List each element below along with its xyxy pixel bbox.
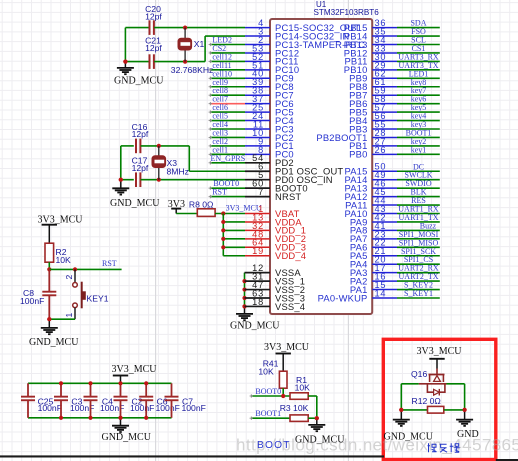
svg-text:RST: RST [102, 259, 117, 268]
capacitor C20 [145, 4, 162, 35]
transistor Q16 [411, 369, 447, 396]
pin 35 PB14 [344, 26, 397, 41]
pin 14 PA0-WKUP [318, 288, 397, 303]
junction [315, 416, 319, 420]
pin 51 PC10 [245, 60, 299, 75]
no-connect cross [209, 68, 212, 71]
svg-text:100nF: 100nF [182, 403, 206, 413]
pin 21 PA5 [350, 246, 397, 261]
pin 56 PB4 [349, 111, 397, 126]
svg-text:14: 14 [375, 288, 387, 298]
pin 63 VSS_3 [245, 288, 306, 303]
net label cell7 [210, 95, 245, 104]
svg-text:10K: 10K [258, 367, 274, 377]
net label S_KEY2 [397, 281, 440, 290]
pin 55 PB3 [349, 119, 397, 134]
net label key2 [397, 137, 440, 146]
svg-text:12pf: 12pf [145, 43, 162, 53]
svg-text:PA0-WKUP: PA0-WKUP [318, 292, 368, 303]
no-connect cross [209, 186, 212, 189]
pin 26 PB0 [349, 145, 397, 160]
svg-text:GND_MCU: GND_MCU [114, 76, 164, 87]
wire [49, 318, 75, 320]
junction [281, 394, 285, 398]
power 3V3_MCU [111, 364, 157, 383]
pin 8 PC0 [245, 145, 294, 160]
net label key8 [397, 78, 440, 87]
svg-text:3V3_MCU: 3V3_MCU [264, 342, 310, 353]
highlight box 防反接 [383, 339, 496, 459]
power 3V3 [168, 199, 185, 214]
junction [119, 178, 123, 182]
junction [118, 416, 122, 420]
wire [308, 417, 317, 419]
net label cell10 [210, 69, 245, 78]
capacitor C25 [21, 383, 62, 418]
wire [223, 246, 245, 248]
pin 9 PC1 [245, 136, 294, 151]
wire [125, 27, 149, 29]
junction [123, 60, 127, 64]
pin 6 PD1 OSC_OUT [245, 162, 343, 177]
ground GND_MCU [29, 317, 79, 348]
wire [141, 145, 190, 147]
net label SCL [397, 36, 440, 45]
pin 59 PB7 [349, 86, 397, 101]
net label UART1_RX [397, 205, 440, 214]
wire [154, 27, 245, 29]
net label FSO [397, 27, 440, 36]
svg-text:3V3_MCU: 3V3_MCU [111, 364, 157, 375]
pin 4 PC15-SOC32_OUT [245, 18, 360, 33]
svg-text:GND_MCU: GND_MCU [230, 321, 280, 332]
wire [48, 262, 50, 269]
junction [47, 267, 51, 271]
pin 60 BOOT0 [245, 179, 308, 194]
junction [399, 408, 403, 412]
junction [242, 296, 246, 300]
svg-text:S_KEY1: S_KEY1 [404, 289, 433, 298]
wire [121, 145, 134, 147]
wire [401, 409, 427, 411]
net label SPI1_MOSI [397, 230, 440, 239]
net label cell5 [210, 112, 245, 121]
junction [144, 416, 148, 420]
svg-text:BOOT0: BOOT0 [255, 387, 281, 396]
junction [59, 381, 63, 385]
net label key5 [397, 103, 440, 112]
svg-text:GND_MCU: GND_MCU [29, 337, 79, 348]
svg-text:12pf: 12pf [132, 163, 149, 173]
power 3V3_MCU [416, 346, 462, 369]
svg-text:100nF: 100nF [130, 403, 154, 413]
no-connect cross [209, 110, 212, 113]
ground GND_MCU [101, 416, 151, 443]
wire [205, 35, 245, 37]
wire [464, 384, 466, 410]
pin 13 VDDA [245, 212, 302, 227]
pin 15 PA1 [350, 280, 397, 295]
pin 2 PC13-TAMPER-RTC [245, 35, 365, 50]
net label UART2_TX [397, 272, 440, 281]
power 3V3_MCU [264, 342, 310, 371]
junction [221, 237, 225, 241]
pin 40 PC9 [245, 69, 294, 84]
ground GND_MCU [114, 60, 164, 87]
no-connect cross [209, 94, 212, 97]
junction [183, 26, 187, 30]
svg-text:100nF: 100nF [156, 403, 180, 413]
net label cell3 [210, 128, 245, 137]
svg-text:8MHz: 8MHz [167, 167, 189, 177]
net label BLK [397, 188, 440, 197]
crystal X1 [171, 28, 214, 76]
pin 62 PB9 [349, 69, 397, 84]
no-connect cross [250, 394, 253, 397]
no-connect cross [209, 161, 212, 164]
svg-text:BOOT1: BOOT1 [255, 409, 281, 418]
capacitor C4 [84, 383, 125, 418]
pin 47 VSS_2 [245, 280, 306, 295]
pin 44 PA11 [345, 195, 397, 210]
svg-text:GND_MCU: GND_MCU [101, 432, 151, 443]
pin 46 PA13 [344, 179, 397, 194]
net label cell9 [210, 78, 245, 87]
svg-text:10K: 10K [295, 383, 311, 393]
svg-text:3V3_MCU: 3V3_MCU [416, 346, 462, 357]
net label SDA [397, 19, 440, 28]
IC U1 STM32F103RBT6 [270, 0, 379, 314]
pin 5 PD0 OSC_IN [245, 170, 333, 185]
pin 53 PC12 [245, 43, 299, 58]
net label LED2 [210, 36, 245, 45]
junction [118, 381, 122, 385]
wire [189, 170, 245, 172]
net label Buzz [397, 221, 440, 230]
junction [157, 144, 161, 148]
net label S_KEY1 [397, 289, 440, 298]
pin 57 PB5 [349, 103, 397, 118]
pin 58 PB6 [349, 94, 397, 109]
wire [176, 213, 197, 215]
pin 12 VSSA [245, 263, 302, 278]
svg-text:32.768KHz: 32.768KHz [171, 65, 214, 75]
wire [282, 388, 284, 396]
pin 30 PB11 [344, 52, 397, 67]
ground GND_MCU [230, 304, 280, 331]
pin 36 PB15 [344, 18, 397, 33]
net label key1 [397, 145, 440, 154]
junction [88, 381, 92, 385]
capacitor C16 [132, 122, 149, 153]
label 防反接 [428, 443, 460, 452]
wire [223, 255, 245, 257]
resistor R12 [412, 396, 444, 413]
net label key3 [397, 120, 440, 129]
net label SPI1_CS [397, 255, 440, 264]
pin 43 PA10 [344, 204, 397, 219]
wire [400, 384, 402, 410]
svg-text:Q16: Q16 [411, 369, 427, 379]
junction [221, 228, 225, 232]
power 3V3_MCU [37, 214, 83, 243]
junction [73, 267, 77, 271]
pin 3 PC14-SOC32_IN [245, 26, 350, 41]
junction [242, 279, 246, 283]
svg-text:R8 0Ω: R8 0Ω [189, 200, 214, 210]
net label EN_GPRS [210, 154, 245, 163]
pin 18 VSS_4 [245, 297, 306, 312]
net label DC [397, 162, 440, 171]
svg-text:12pf: 12pf [145, 12, 162, 22]
wire [28, 382, 172, 384]
no-connect cross [209, 136, 212, 139]
wire [223, 238, 245, 240]
net label SWDIO [397, 179, 440, 188]
wire [121, 179, 134, 181]
pin 42 PA9 [350, 212, 397, 227]
svg-text:12pf: 12pf [132, 129, 149, 139]
no-connect cross [209, 102, 212, 105]
svg-text:1: 1 [64, 313, 74, 318]
ground GND_MCU [308, 416, 325, 431]
pin 50 PA15 [344, 162, 397, 177]
net label UART1_TX [397, 213, 440, 222]
junction [157, 178, 161, 182]
wire [154, 61, 205, 63]
wire [444, 409, 465, 411]
svg-text:10K: 10K [56, 255, 72, 265]
no-connect cross [209, 85, 212, 88]
net label cell12 [210, 52, 245, 61]
net label RES [397, 196, 440, 205]
pin 64 VDD_3 [245, 238, 306, 253]
junction [88, 416, 92, 420]
ground GND_MCU [393, 408, 410, 426]
pin 45 PA12 [344, 187, 397, 202]
svg-text:BOOT: BOOT [257, 440, 291, 451]
wire [120, 146, 122, 180]
no-connect cross [209, 43, 212, 46]
resistor R41 [258, 359, 287, 389]
pin 16 PA2 [350, 272, 397, 287]
svg-text:GND_MCU: GND_MCU [295, 435, 345, 446]
capacitor C2 [114, 383, 155, 418]
svg-text:3V3_MCU: 3V3_MCU [37, 214, 83, 225]
junction [221, 211, 225, 215]
pin 28 PB2BOOT1 [316, 128, 397, 143]
net label UART3_RX [397, 52, 440, 61]
pin 1 VBAT [245, 204, 300, 219]
svg-text:X1: X1 [194, 39, 205, 49]
svg-text:RST: RST [212, 188, 227, 197]
svg-text:26: 26 [375, 145, 387, 155]
net label SWCLK [397, 171, 440, 180]
junction [144, 381, 148, 385]
resistor R2 [45, 243, 71, 265]
pin 11 PC3 [245, 119, 294, 134]
net label cell2 [210, 137, 245, 146]
net label cell4 [210, 120, 245, 129]
svg-text:NRST: NRST [275, 191, 301, 202]
no-connect cross [209, 153, 212, 156]
wire [316, 396, 318, 418]
pin 33 PB12 [344, 43, 397, 58]
wire [223, 229, 245, 231]
net label cell6 [210, 103, 245, 112]
resistor R3 [280, 403, 309, 421]
net label cell1 [210, 145, 245, 154]
net label BOOT1 [251, 409, 290, 418]
svg-text:VDD_4: VDD_4 [275, 250, 306, 261]
sheet bottom border [0, 455, 518, 461]
wire [222, 214, 224, 256]
net label SPI1_SCK [397, 247, 440, 256]
svg-text:EN_GPRS: EN_GPRS [211, 154, 246, 163]
svg-text:PB0: PB0 [349, 149, 367, 160]
junction [242, 304, 246, 308]
net label key7 [397, 86, 440, 95]
no-connect cross [209, 119, 212, 122]
pin 27 PB1 [349, 136, 397, 151]
net label RST [210, 188, 245, 197]
svg-text:18: 18 [252, 297, 264, 307]
pin 20 PA4 [350, 255, 397, 270]
svg-text:R3 10K: R3 10K [280, 403, 309, 413]
junction [221, 220, 225, 224]
svg-text:VSS_4: VSS_4 [275, 301, 305, 312]
pin 25 PC5 [245, 103, 294, 118]
pin 19 VDD_4 [245, 246, 306, 261]
pin 31 VSS_1 [245, 272, 306, 287]
svg-text:GND_MCU: GND_MCU [110, 198, 160, 209]
svg-text:STM32F103RBT6: STM32F103RBT6 [314, 8, 380, 17]
ground GND [456, 408, 473, 426]
no-connect cross [209, 77, 212, 80]
net label key6 [397, 95, 440, 104]
wire [401, 383, 418, 385]
wire [308, 395, 317, 397]
capacitor C3 [54, 383, 94, 418]
pin 29 PB10 [344, 60, 397, 75]
resistor R8 [189, 200, 215, 217]
junction [463, 408, 467, 412]
svg-text:GND: GND [457, 429, 479, 440]
net label key4 [397, 112, 440, 121]
net label BOOT0 [251, 387, 290, 396]
net label CS1 [397, 44, 440, 53]
svg-text:100nF: 100nF [38, 403, 62, 413]
svg-text:R12 0Ω: R12 0Ω [412, 396, 442, 406]
pin 48 VDD_2 [245, 229, 306, 244]
pin 39 PC8 [245, 77, 294, 92]
pin 24 PC4 [245, 111, 294, 126]
net label RST [49, 259, 121, 269]
pin 17 PA3 [350, 263, 397, 278]
wire [28, 417, 172, 419]
wire [141, 179, 245, 181]
switch KEY1 [64, 269, 109, 319]
pin 10 PC2 [245, 128, 294, 143]
wire [188, 146, 190, 171]
svg-text:GND_MCU: GND_MCU [384, 432, 434, 443]
no-connect cross [209, 195, 212, 198]
pin 54 PD2 [245, 153, 294, 168]
crystal X3 [153, 146, 189, 180]
svg-text:2: 2 [64, 275, 74, 280]
svg-text:7: 7 [258, 187, 264, 197]
pin 23 PA7 [350, 229, 397, 244]
pin 34 PB13 [344, 35, 397, 50]
junction [59, 416, 63, 420]
net label UART3_TX [397, 61, 440, 70]
no-connect cross [209, 60, 212, 63]
no-connect cross [209, 144, 212, 147]
no-connect cross [250, 417, 253, 420]
junction [47, 317, 51, 321]
wire [204, 36, 206, 62]
junction [242, 287, 246, 291]
junction [221, 245, 225, 249]
wire [215, 213, 245, 215]
net label LED1 [397, 69, 440, 78]
net label CS2 [210, 44, 245, 53]
junction [183, 60, 187, 64]
pin 49 PA14 [344, 170, 397, 185]
capacitor C21 [145, 35, 162, 69]
capacitor C8 [20, 269, 56, 319]
net label UART2_RX [397, 264, 440, 273]
net label cell11 [210, 61, 245, 70]
svg-text:key1: key1 [411, 145, 427, 154]
pin 38 PC7 [245, 86, 294, 101]
pin 7 NRST [245, 187, 301, 202]
no-connect cross [209, 51, 212, 54]
svg-text:100nF: 100nF [20, 296, 44, 306]
net label BOOT1 [397, 128, 440, 137]
wire [244, 273, 246, 307]
svg-text:KEY1: KEY1 [87, 294, 109, 304]
capacitor C6 [139, 383, 180, 418]
pin 32 VDD_1 [245, 221, 306, 236]
pin 41 PA8 [350, 221, 397, 236]
pin 52 PC11 [245, 52, 299, 67]
wire [223, 221, 245, 223]
pin 37 PC6 [245, 94, 294, 109]
capacitor C17 [132, 155, 149, 187]
wire [447, 383, 465, 385]
no-connect cross [209, 127, 212, 130]
pin 22 PA6 [350, 238, 397, 253]
capacitor C7 [165, 383, 206, 418]
resistor R1 [290, 375, 310, 399]
svg-text:3V3_MCU: 3V3_MCU [226, 204, 262, 213]
svg-text:19: 19 [252, 246, 264, 256]
net label BOOT0 [210, 179, 245, 188]
pin 61 PB8 [349, 77, 397, 92]
net label cell8 [210, 86, 245, 95]
wire [124, 28, 126, 62]
net label SPI1_MISO [397, 238, 440, 247]
ground GND_MCU [110, 178, 160, 209]
wire [125, 61, 149, 63]
